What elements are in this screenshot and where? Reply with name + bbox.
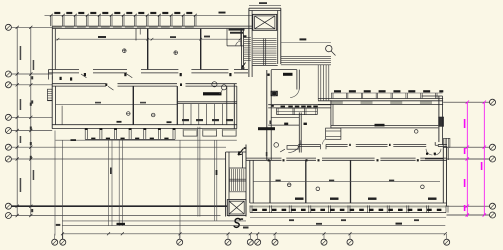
shaft landing <box>252 65 278 67</box>
wing corridor wall <box>331 125 438 127</box>
corridor west stub <box>48 73 50 80</box>
toilet strip label <box>203 92 222 95</box>
axis line L8 y=206.2 <box>12 205 228 207</box>
middle south wall <box>52 124 237 126</box>
bottom target 2 <box>316 187 320 191</box>
junction column <box>271 91 278 96</box>
middle east wall B <box>233 84 235 129</box>
toilet strip divider <box>177 101 237 103</box>
dim chain vertical x17 <box>16 27 18 215</box>
upper partition 1 <box>147 29 149 70</box>
upper dim text <box>98 36 106 38</box>
bottom partition 0 <box>269 160 271 203</box>
axis line L7 y=159.0 <box>12 158 226 160</box>
elevator top box <box>253 14 277 30</box>
middle wall circles <box>212 82 217 87</box>
junction room marks <box>284 123 288 126</box>
room target 1 <box>123 49 127 53</box>
magenta dimension chain <box>466 102 468 217</box>
toilet door arc <box>236 41 241 46</box>
middle target 2 <box>151 113 155 117</box>
middle target 1 <box>127 112 131 116</box>
bottom target 3 <box>421 185 425 189</box>
axis line L1 y=27.3 <box>12 26 53 28</box>
bottom south wall <box>250 202 447 204</box>
east entry vestibule <box>425 158 444 160</box>
wing north wall <box>318 98 443 100</box>
top dimension line <box>45 14 253 16</box>
junction south wall <box>268 104 331 106</box>
junction south windows <box>277 107 318 109</box>
ext line x180 <box>179 141 181 239</box>
axis circle L9 <box>5 213 11 219</box>
bottom block west wall <box>249 160 251 203</box>
bottom rooms dim <box>254 180 440 182</box>
middle south windows <box>85 138 175 140</box>
junction lower divider <box>268 124 299 126</box>
axis line L3 y=84.8 <box>12 84 53 86</box>
toilet windows <box>183 129 197 136</box>
left stair treads <box>244 37 251 39</box>
middle west wall <box>51 84 53 129</box>
junction room A east wall <box>296 70 298 90</box>
junction room A door arc <box>290 88 299 98</box>
ext line x215 <box>214 141 216 221</box>
bottom chain text <box>243 227 249 229</box>
junction west wall <box>266 70 268 160</box>
bottom chain y221 <box>63 220 247 222</box>
middle east wall A <box>176 86 178 125</box>
east entrance doors <box>426 149 432 155</box>
wing dim text <box>334 90 341 92</box>
door niche x136 <box>135 29 137 41</box>
ext line x120 <box>118 141 120 226</box>
middle partition <box>132 86 134 125</box>
bottom axis circles <box>52 239 58 245</box>
bottom east wall <box>442 147 444 203</box>
middle bottom dim <box>56 139 237 141</box>
ext line x108 <box>107 141 109 226</box>
bottom corridor south wall <box>246 157 282 159</box>
toilet partition h <box>227 45 244 47</box>
room target 2 <box>174 51 178 55</box>
axis line L4 y=117.3 <box>12 116 53 118</box>
axis circle L8 <box>5 203 11 209</box>
right axis circles <box>490 99 496 105</box>
axis circle L6 <box>5 144 11 150</box>
bottom chain y234 <box>63 233 446 235</box>
junction room A top <box>271 69 297 71</box>
top stair treads <box>253 38 277 40</box>
walkway circle marker <box>326 45 332 51</box>
wing NE wall step <box>422 95 443 97</box>
bottom target 1 <box>287 183 291 187</box>
ext line x54 <box>54 131 56 236</box>
east porch steps <box>444 138 450 147</box>
wing east panel <box>438 117 444 127</box>
axis circle L3 <box>5 82 11 88</box>
dim chain ticks <box>16 26 19 29</box>
axis circle L4 <box>5 114 11 120</box>
S marker <box>234 218 240 227</box>
junction lower door arc <box>288 140 301 153</box>
bottom elevator box <box>227 200 246 216</box>
axis circle L7 <box>5 156 11 162</box>
bottom block north wall <box>298 144 320 146</box>
top dim text <box>54 12 60 14</box>
wing toilet box <box>326 128 341 139</box>
wing dim line <box>331 92 443 94</box>
below-window marks <box>289 219 294 221</box>
axis circle L5 <box>5 128 11 134</box>
bottom partition 2 <box>350 160 352 203</box>
shaft outer walls <box>248 8 250 77</box>
ext text x110 <box>110 168 112 175</box>
bottom stair treads <box>229 169 231 191</box>
shaft top dim line <box>249 5 281 7</box>
axis line L2 y=74.0 <box>12 73 53 75</box>
junction lower circle <box>274 143 279 148</box>
wing circle <box>414 130 418 134</box>
junction lower label <box>258 127 275 130</box>
right axis lines <box>443 101 490 103</box>
bottom shaft walls <box>225 152 227 217</box>
upper block east wall <box>241 29 243 70</box>
ext line x62 <box>61 140 63 239</box>
top dim ticks <box>50 14 53 17</box>
toilet partition v <box>226 29 228 46</box>
upper room dim line <box>56 38 240 40</box>
west stair bump <box>48 89 53 101</box>
ext line x198 <box>197 127 199 217</box>
bottom partition 1 <box>305 160 307 203</box>
junction lower east wall <box>298 112 300 152</box>
axis line L6 y=147.2 <box>12 146 226 148</box>
upper corridor north wall <box>49 69 80 71</box>
stair arrow marker <box>242 63 246 69</box>
axis line L9 y=215.5 <box>12 215 221 217</box>
upper block west wall <box>51 26 53 83</box>
K arrow marker <box>238 149 244 156</box>
dim chain text <box>20 46 22 60</box>
middle interior dim <box>56 103 178 105</box>
wing east wall <box>438 96 440 142</box>
bottom chain ticks <box>61 232 64 235</box>
toilet stalls <box>182 104 184 125</box>
middle block north wall <box>52 83 106 85</box>
walkway dim line <box>281 42 331 44</box>
east entry door dots <box>426 153 428 155</box>
bottom room labels <box>295 198 304 200</box>
bottom stair top rail <box>229 167 246 169</box>
junction rooms top <box>271 117 299 119</box>
walkway bundle <box>281 55 331 57</box>
upper partition 2 <box>200 29 202 70</box>
bottom chain y225 <box>63 225 446 227</box>
north window row upper block <box>50 16 52 26</box>
bottom south windows <box>250 212 446 214</box>
axis circle L2 <box>5 71 11 77</box>
axis circle L1 <box>5 24 11 30</box>
junction room A label <box>283 73 293 76</box>
wing north windows <box>331 93 333 99</box>
dim chain vertical x31 <box>30 27 32 215</box>
axis line L5 y=130.5 <box>12 130 53 132</box>
wing west wall <box>330 100 332 128</box>
upper block north wall <box>52 25 252 27</box>
